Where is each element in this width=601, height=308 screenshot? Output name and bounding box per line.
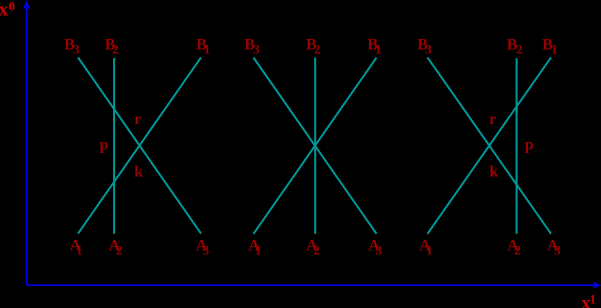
svg-text:1: 1 [375,42,382,57]
label A3 (group 2) [368,238,382,258]
axis label x^0 [0,0,15,21]
label B3 (group 2) [244,37,260,57]
label B2 (group 2) [306,37,321,57]
worldline B1-A1 (group 1) [78,57,201,233]
x0 axis (vertical blue axis) [24,2,29,285]
label A1 (group 1) [70,238,83,258]
svg-text:1: 1 [551,42,558,57]
axis label x^1 [581,291,596,308]
svg-text:2: 2 [116,243,123,258]
label A1 (group 2) [248,238,261,258]
svg-text:1: 1 [590,291,597,306]
label A3 (group 3) [547,238,561,258]
svg-text:p: p [100,137,109,154]
svg-text:3: 3 [376,243,383,258]
worldline B3-A3 (group 2) [254,58,377,234]
svg-text:r: r [489,111,496,128]
svg-text:3: 3 [554,243,561,258]
svg-text:1: 1 [255,243,262,258]
label B2 (group 1) [105,37,119,57]
svg-text:1: 1 [204,42,211,57]
svg-text:2: 2 [314,42,321,57]
worldline B1-A1 (group 2) [254,58,377,234]
label B1 (group 2) [367,37,381,57]
worldline B1-A1 (group 3) [428,57,552,233]
label A2 (group 3) [507,238,521,258]
label A1 (group 3) [419,238,432,258]
label A2 (group 1) [109,238,123,258]
svg-text:1: 1 [76,243,83,258]
worldline B2-A2 (group 1) [113,58,115,234]
worldline B3-A3 (group 1) [78,57,201,233]
svg-text:1: 1 [426,243,433,258]
label B3 (group 1) [64,37,80,57]
label B3 (group 3) [417,37,432,57]
svg-text:2: 2 [516,42,523,57]
x1 axis (horizontal blue axis) [27,283,600,288]
worldline B2-A2 (group 2) [314,58,316,234]
svg-text:x: x [0,0,9,21]
svg-text:3: 3 [73,42,80,57]
svg-text:r: r [134,111,141,128]
worldline B3-A3 (group 3) [428,57,552,233]
svg-text:2: 2 [514,243,521,258]
svg-text:k: k [134,164,143,181]
svg-text:2: 2 [112,42,119,57]
svg-text:p: p [525,137,534,154]
label B1 (group 1) [196,37,210,57]
label A3 (group 1) [196,238,210,258]
svg-text:k: k [489,163,498,180]
label A2 (group 2) [306,238,320,258]
svg-text:3: 3 [425,42,432,57]
svg-text:2: 2 [314,243,321,258]
svg-text:0: 0 [9,0,15,13]
label B1 (group 3) [542,37,557,57]
worldline B2-A2 (group 3) [516,58,518,234]
svg-text:3: 3 [253,42,260,57]
label B2 (group 3) [507,37,523,57]
svg-text:3: 3 [203,243,210,258]
